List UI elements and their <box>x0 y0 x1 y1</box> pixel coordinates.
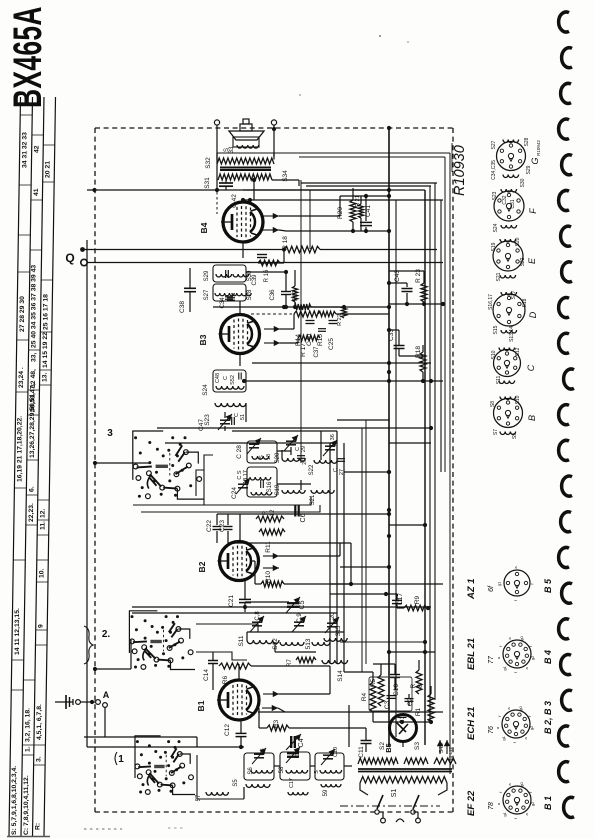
mains switch <box>340 795 440 823</box>
svg-text:S16,17: S16,17 <box>488 294 494 310</box>
svg-text:S14: S14 <box>337 670 344 682</box>
wire <box>245 601 289 603</box>
svg-text:16,19 21 17,18,20,22.: 16,19 21 17,18,20,22. <box>17 416 24 482</box>
bus rung <box>301 183 437 190</box>
svg-text:g2: g2 <box>529 725 534 730</box>
svg-text:g1: g1 <box>502 811 507 816</box>
svg-text:C: C <box>526 364 536 371</box>
svg-text:R1: R1 <box>415 707 422 716</box>
svg-text:S15: S15 <box>336 625 342 636</box>
wire <box>239 514 241 541</box>
svg-text:S7: S7 <box>493 429 499 435</box>
svg-text:S23: S23 <box>204 414 211 426</box>
coil S15 <box>324 625 347 641</box>
wire <box>239 301 241 314</box>
shield dash <box>216 192 218 214</box>
svg-text:C3: C3 <box>384 700 391 709</box>
wire <box>242 379 443 383</box>
resistor R23 <box>415 269 427 304</box>
svg-text:f: f <box>498 791 503 793</box>
wire <box>197 755 244 799</box>
svg-text:f: f <box>513 599 518 601</box>
coil pack D <box>488 290 538 342</box>
svg-text:S20: S20 <box>275 452 281 463</box>
svg-text:C8: C8 <box>260 748 266 755</box>
svg-text:C25: C25 <box>328 338 335 350</box>
svg-text:3,2, 16, 18.: 3,2, 16, 18. <box>24 708 31 742</box>
arrow <box>263 196 340 219</box>
svg-text:10.: 10. <box>39 568 46 578</box>
svg-text:f: f <box>527 715 532 717</box>
bus <box>434 183 436 700</box>
capacitor C6 <box>295 506 307 523</box>
svg-text:77: 77 <box>488 655 495 664</box>
wire <box>84 736 197 738</box>
svg-text:S12: S12 <box>515 347 521 356</box>
svg-text:C 28: C 28 <box>236 445 243 459</box>
capacitor C40 <box>306 321 315 324</box>
svg-text:C48: C48 <box>215 373 221 383</box>
coil pack B <box>490 395 537 439</box>
schematic dashed border <box>95 128 453 812</box>
svg-text:Q: Q <box>65 251 74 265</box>
coil S14 <box>322 660 348 682</box>
svg-text:S20: S20 <box>515 237 521 246</box>
wire <box>272 180 299 186</box>
wire <box>389 523 427 527</box>
svg-text:f: f <box>513 671 518 673</box>
svg-text:R20: R20 <box>337 207 344 219</box>
svg-text:33: 33 <box>229 146 235 153</box>
capacitor C25 <box>328 321 338 350</box>
capacitor C28 <box>236 438 261 459</box>
svg-text:f: f <box>497 715 502 717</box>
svg-text:513: 513 <box>305 638 312 649</box>
svg-text:f: f <box>513 817 518 819</box>
wire <box>204 455 213 505</box>
svg-text:3.: 3. <box>36 756 43 762</box>
resistor R7 <box>287 657 316 667</box>
coil box S16 <box>247 467 277 497</box>
bus <box>429 186 431 722</box>
svg-text:S30: S30 <box>520 178 526 187</box>
svg-text:S32: S32 <box>205 157 212 169</box>
svg-text:S52: S52 <box>230 375 236 385</box>
capacitor C42 <box>217 164 238 208</box>
bus rung <box>243 199 443 201</box>
svg-text:AZ 1: AZ 1 <box>466 578 477 600</box>
svg-text:20 21: 20 21 <box>45 161 52 178</box>
wire <box>387 534 391 538</box>
tube B5 <box>384 715 417 753</box>
wire <box>258 711 443 713</box>
wire <box>243 189 310 191</box>
wire <box>299 156 445 158</box>
svg-text:C: C <box>223 376 229 380</box>
wire <box>196 652 247 660</box>
wire <box>132 605 431 609</box>
resistor R1 <box>415 686 434 722</box>
svg-text:f: f <box>528 791 533 793</box>
svg-text:S1: S1 <box>391 789 398 798</box>
wire <box>361 428 363 672</box>
svg-text:g1: g1 <box>501 735 506 740</box>
svg-text:a: a <box>496 802 501 805</box>
svg-text:R10942: R10942 <box>536 140 541 156</box>
svg-text:C10: C10 <box>333 747 339 757</box>
wire <box>87 188 391 192</box>
wire <box>388 306 390 308</box>
svg-text:S27: S27 <box>204 289 210 300</box>
capacitor C38 <box>179 268 196 313</box>
wire <box>238 664 240 680</box>
coil S7 <box>196 792 228 801</box>
svg-text:13,26,27,28,29,50,51.: 13,26,27,28,29,50,51. <box>29 392 36 458</box>
bus <box>444 157 446 472</box>
terminal A <box>103 690 110 737</box>
coil box S18 <box>247 441 277 463</box>
capacitor C16 <box>390 664 400 696</box>
svg-text:9: 9 <box>38 624 45 628</box>
svg-text:S21: S21 <box>310 494 316 505</box>
wire <box>286 229 391 233</box>
coil pack G <box>491 137 541 187</box>
svg-text:D: D <box>528 311 538 318</box>
capacitor C3 <box>384 696 396 710</box>
resistor R15 <box>317 311 336 346</box>
brace <box>84 626 93 664</box>
wire <box>133 497 311 505</box>
svg-text:C: 7,8,9,10,4,11,12.: C: 7,8,9,10,4,11,12. <box>23 775 30 835</box>
svg-text:a: a <box>495 726 500 729</box>
svg-text:f: f <box>528 645 533 647</box>
wire <box>344 470 391 474</box>
wire <box>387 470 391 512</box>
svg-text:C36: C36 <box>270 289 276 301</box>
svg-text:g1: g1 <box>497 581 502 586</box>
svg-text:S24: S24 <box>493 223 499 232</box>
svg-text:18: 18 <box>266 454 272 460</box>
resistor R17 <box>298 335 320 357</box>
svg-text:L11 L12: L11 L12 <box>448 747 453 763</box>
svg-text:EBL 21: EBL 21 <box>466 638 477 670</box>
capacitor C27 <box>333 459 345 475</box>
coil S23 <box>204 403 246 426</box>
bus <box>387 126 391 747</box>
wire <box>87 262 443 264</box>
tube B3 <box>198 315 260 354</box>
capacitor C34 <box>220 297 235 309</box>
svg-text:S: 5,7,9,1,6,8,10,2,3,4.: S: 5,7,9,1,6,8,10,2,3,4. <box>11 766 18 835</box>
switch bank 3 <box>107 428 204 499</box>
resistor R22 <box>337 306 347 326</box>
svg-text:S19: S19 <box>491 242 497 251</box>
svg-text:C12: C12 <box>224 724 231 736</box>
core <box>220 168 271 171</box>
arrow <box>263 565 279 571</box>
wire <box>387 650 435 654</box>
svg-text:1.: 1. <box>24 746 31 752</box>
capacitor C4 <box>286 734 305 750</box>
resistor R18 <box>282 236 437 253</box>
svg-text:F: F <box>528 208 538 214</box>
capacitor C23 <box>219 514 233 543</box>
svg-text:6f: 6f <box>488 585 495 592</box>
svg-text:23,24 .: 23,24 . <box>18 367 25 388</box>
arrow <box>263 543 340 559</box>
wire <box>300 180 302 463</box>
wire <box>244 766 352 799</box>
svg-text:14 11 12,13,15.: 14 11 12,13,15. <box>14 608 21 655</box>
svg-text:S28: S28 <box>247 289 253 300</box>
svg-text:S31: S31 <box>204 177 211 189</box>
wire <box>217 512 391 543</box>
wire <box>373 712 433 724</box>
coil S13 <box>305 638 330 649</box>
bus <box>440 200 442 472</box>
capacitor C33 <box>387 328 405 356</box>
svg-text:2.: 2. <box>102 629 111 640</box>
drawing number R10930 <box>452 143 468 196</box>
svg-text:C6: C6 <box>300 513 307 522</box>
terminal Q label <box>65 247 87 266</box>
winding S1 <box>360 777 447 798</box>
speaker <box>229 119 264 147</box>
wire <box>165 442 337 444</box>
wire <box>336 431 338 663</box>
svg-text:12: 12 <box>270 509 276 516</box>
wire <box>84 249 284 251</box>
svg-text:B 5: B 5 <box>543 578 553 593</box>
svg-text:a: a <box>496 656 501 659</box>
wire <box>196 470 204 496</box>
wire <box>387 370 391 374</box>
core2 <box>358 769 452 772</box>
svg-text:EF 22: EF 22 <box>466 790 477 816</box>
svg-text:S2: S2 <box>379 742 386 750</box>
coil S5 <box>233 779 270 788</box>
wire <box>340 640 427 644</box>
svg-text:41: 41 <box>33 188 40 196</box>
svg-text:S18: S18 <box>522 298 528 307</box>
speck <box>7 35 409 837</box>
svg-text:a: a <box>506 707 511 710</box>
svg-text:13.: 13. <box>42 372 49 382</box>
svg-text:S22: S22 <box>520 257 526 266</box>
svg-text:3: 3 <box>107 428 113 439</box>
coil box S6 <box>244 748 274 780</box>
switch bank 1 <box>115 736 195 795</box>
capacitor C19 <box>292 613 306 632</box>
svg-text:g0: g0 <box>519 636 524 641</box>
svg-text:C11: C11 <box>358 746 365 758</box>
svg-text:29: 29 <box>301 446 307 452</box>
svg-text:E: E <box>527 257 537 264</box>
svg-text:B: B <box>527 415 537 421</box>
resistor R5 <box>370 664 384 706</box>
winding S32 <box>205 153 274 169</box>
svg-text:S: S <box>314 770 320 774</box>
svg-text:6.: 6. <box>28 486 35 492</box>
svg-text:R:: R: <box>35 823 42 830</box>
wire <box>343 443 345 672</box>
svg-text:BX465A: BX465A <box>6 6 51 108</box>
wire <box>438 783 447 795</box>
capacitor C14 <box>203 652 218 681</box>
capacitor C36b <box>323 434 337 456</box>
svg-text:42: 42 <box>34 145 41 153</box>
terminal <box>76 700 101 705</box>
resistor R20 <box>337 188 356 231</box>
IF can S27 S28 <box>204 284 253 301</box>
svg-text:a: a <box>524 667 529 670</box>
svg-text:C17: C17 <box>289 778 295 788</box>
capacitor C43 <box>387 270 413 304</box>
wire <box>248 180 254 202</box>
capacitor C37 <box>314 329 326 358</box>
wire <box>337 419 389 421</box>
svg-text:S29: S29 <box>526 165 532 174</box>
capacitor C5 <box>286 597 306 613</box>
svg-text:S27: S27 <box>491 140 497 149</box>
tube B1 <box>196 680 259 720</box>
capacitor C51 <box>232 413 246 425</box>
svg-text:59: 59 <box>323 789 329 796</box>
bus <box>395 200 397 737</box>
wire <box>365 420 367 664</box>
capacitor C29 <box>284 435 307 452</box>
svg-text:B2: B2 <box>197 561 207 572</box>
capacitor C8 <box>260 748 266 755</box>
svg-text:a: a <box>523 737 528 740</box>
wire <box>277 447 291 455</box>
svg-text:B4: B4 <box>199 222 209 233</box>
winding S2 <box>358 742 398 764</box>
bus <box>424 190 426 745</box>
svg-text:C38: C38 <box>179 301 186 313</box>
arrow <box>264 314 294 332</box>
svg-text:R9: R9 <box>414 595 421 604</box>
svg-text:78: 78 <box>488 802 495 810</box>
capacitor C10 <box>333 747 339 757</box>
capacitor C11 <box>349 728 372 758</box>
wire <box>241 198 245 202</box>
resistor R8 <box>410 660 424 694</box>
coil S22 <box>309 460 337 475</box>
arrow <box>264 338 298 346</box>
svg-text:C9: C9 <box>295 749 301 756</box>
capacitor C9 <box>295 749 301 756</box>
capacitor C2 <box>405 694 415 706</box>
winding S3 <box>404 742 456 764</box>
svg-text:S23: S23 <box>492 191 498 200</box>
wire <box>197 672 213 747</box>
svg-text:g1: g1 <box>502 665 507 670</box>
svg-text:S22: S22 <box>309 464 315 475</box>
wire <box>196 624 258 632</box>
coil pack C <box>491 347 536 384</box>
capacitor C17 <box>330 592 404 608</box>
tube B4 <box>199 202 263 242</box>
ground <box>55 695 73 709</box>
svg-text:22,23.: 22,23. <box>28 503 35 522</box>
svg-text:C37: C37 <box>314 346 320 358</box>
resistor R9 <box>397 595 430 610</box>
svg-text:A: A <box>103 690 110 700</box>
arrow <box>263 227 286 233</box>
pilot lamps L11 L12 <box>437 740 453 763</box>
svg-text:f: f <box>498 645 503 647</box>
svg-text:S: S <box>259 455 265 459</box>
winding S31 <box>204 177 211 189</box>
capacitor C39 <box>252 255 267 286</box>
svg-text:S8: S8 <box>490 401 496 407</box>
wire <box>275 642 316 652</box>
svg-text:C5: C5 <box>299 600 306 609</box>
tube B2 <box>197 542 259 581</box>
svg-text:27 28 29 30: 27 28 29 30 <box>19 296 26 332</box>
capacitor C21 <box>228 581 251 612</box>
wire <box>239 354 241 366</box>
svg-text:B1: B1 <box>196 700 206 711</box>
svg-text:S15: S15 <box>493 325 499 334</box>
wire <box>360 783 368 795</box>
parts location table <box>9 97 56 836</box>
resistor R10 <box>251 561 443 587</box>
coil box S8 <box>279 747 310 795</box>
title BX465A <box>6 6 51 108</box>
svg-text:S11: S11 <box>238 635 245 646</box>
capacitor C41 <box>360 196 372 231</box>
terminal <box>214 120 219 160</box>
svg-text:R10930: R10930 <box>452 145 468 196</box>
resistor R11 <box>259 529 285 553</box>
wire <box>86 240 88 747</box>
svg-text:a: a <box>513 566 518 569</box>
resistor R14 <box>294 304 311 346</box>
coil S20 <box>275 450 305 463</box>
svg-text:26: 26 <box>302 459 308 465</box>
resistor R6 <box>219 663 330 684</box>
capacitor C18 <box>250 611 264 632</box>
resistor R19 <box>292 270 299 307</box>
wire <box>132 612 337 614</box>
coil box S10 <box>314 749 344 796</box>
svg-text:S29: S29 <box>204 270 210 281</box>
svg-text:11.: 11. <box>39 521 46 530</box>
wire <box>320 431 322 460</box>
wire <box>389 271 445 306</box>
svg-text:ECH 21: ECH 21 <box>466 707 477 740</box>
wire <box>213 305 340 309</box>
svg-text:S5: S5 <box>233 779 239 787</box>
switch bank 2 <box>102 611 195 670</box>
tube base EBL21 <box>466 636 553 674</box>
svg-text:C34: C34 <box>220 297 226 309</box>
wire <box>242 242 244 258</box>
wire <box>157 426 433 430</box>
svg-text:34 31 32 33: 34 31 32 33 <box>21 132 28 168</box>
svg-text:C47: C47 <box>198 419 205 431</box>
wire <box>383 812 418 818</box>
IF can S24 <box>202 370 246 396</box>
wire <box>258 249 284 263</box>
svg-text:g0: g0 <box>519 782 524 787</box>
wire <box>93 461 150 465</box>
svg-text:g2: g2 <box>530 801 535 806</box>
svg-text:25 16 17 18: 25 16 17 18 <box>42 294 49 330</box>
svg-text:S10: S10 <box>491 350 497 359</box>
